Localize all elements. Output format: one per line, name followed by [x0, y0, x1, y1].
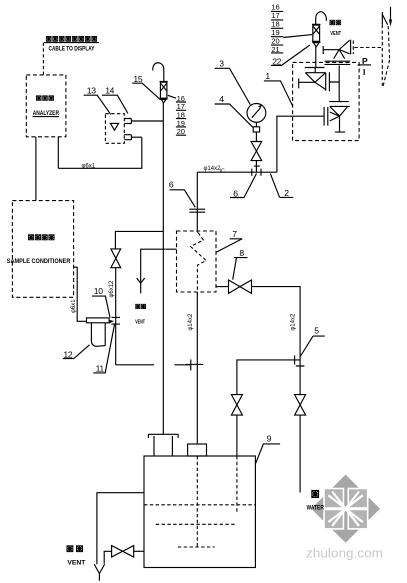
svg-text:SAMPLE CONDITIONER: SAMPLE CONDITIONER: [7, 259, 71, 265]
svg-text:1: 1: [265, 71, 270, 81]
label: fangkong Chinese (vent): [330, 20, 341, 25]
svg-text:9: 9: [267, 433, 272, 443]
cooler coil zigzag (dashed): [191, 233, 207, 292]
leader from 16 to filter F1: [168, 95, 176, 98]
vent hook above filter F2: [316, 12, 327, 25]
valve V10 (vertical bowtie on bypass): [111, 249, 121, 268]
wire: analyzer right stem: [57, 137, 59, 169]
tank nozzle with flange (sample inlet): [148, 434, 178, 456]
leader from stack to filter F2: [283, 35, 312, 38]
port stub upper on box 13: [124, 119, 131, 124]
svg-text:15: 15: [133, 74, 142, 84]
label column 16-21: [271, 3, 279, 54]
wire: bypass valve down to union: [115, 268, 117, 365]
main sample line (vertical): [162, 103, 164, 434]
svg-text:14: 14: [105, 85, 114, 95]
union 5 on water riser: [295, 356, 305, 367]
valve VD (drain bowtie): [112, 546, 134, 557]
wire: filter stem down to valve handle: [315, 47, 317, 68]
wire: water branch to tank: [237, 360, 300, 395]
wire: tank overflow to floor drain: [97, 493, 144, 565]
floor drain funnel: [94, 564, 104, 581]
wire: analyzer left stem to sample conditioner: [35, 137, 37, 201]
wire: cooler drain line with Y vent: [141, 249, 177, 283]
wire: port2 to return line: [131, 136, 141, 138]
wire: valve 8 to water riser: [252, 287, 301, 395]
dashed lower level line: [156, 523, 237, 525]
svg-text:VENT: VENT: [135, 319, 145, 325]
wire: riser from IC header to instrument box: [277, 116, 324, 172]
flow arrow in duct: [390, 7, 392, 21]
valve V1 (regulator in box 1, top-left): [299, 68, 326, 91]
svg-text:ANALYZER: ANALYZER: [33, 110, 60, 117]
filter F2 (vent filter): [312, 24, 321, 47]
dashed liquid level: [144, 504, 255, 506]
flange bars at box 1 top: [325, 61, 351, 64]
svg-text:φ6x12: φ6x12: [109, 280, 115, 298]
valve V8 (horizontal bowtie): [229, 280, 252, 293]
union under gauge: [255, 122, 257, 126]
analyzer U-A: dashed box: [26, 75, 66, 137]
svg-text:11: 11: [96, 364, 105, 374]
svg-text:φ6x1: φ6x1: [82, 163, 96, 169]
svg-text:12: 12: [63, 349, 72, 359]
sample conditioner: dashed box: [12, 201, 73, 298]
wire: phi6x1 return line: [58, 137, 142, 168]
svg-text:13: 13: [87, 85, 96, 95]
union bars right of V1: [329, 72, 339, 91]
wire: drain valve to funnel: [104, 551, 111, 564]
label: water Chinese: [312, 490, 319, 497]
svg-text:5: 5: [314, 326, 319, 336]
svg-text:φ6x1: φ6x1: [71, 299, 77, 313]
Y open vent symbol: [137, 278, 145, 294]
wire: funnel-side line down and across (crossover gap at main line): [116, 364, 191, 366]
svg-text:7: 7: [232, 229, 237, 239]
flue duct wall (crescent): [382, 12, 389, 86]
svg-text:22: 22: [272, 56, 281, 66]
svg-text:I: I: [363, 67, 365, 77]
union coupling at cooler outlet line: [185, 360, 203, 371]
label: paifang Chinese (discharge): [67, 546, 83, 552]
label: sample conditioner Chinese: [28, 235, 54, 240]
port stub lower on box 13: [124, 135, 131, 140]
svg-text:8: 8: [239, 248, 244, 258]
wire: water supply from below: [299, 415, 301, 492]
wire: internal riser: [338, 66, 340, 102]
svg-text:2: 2: [284, 188, 289, 198]
svg-text:φ14x2: φ14x2: [204, 166, 222, 172]
watermark: zhulong logo diamond: [311, 475, 380, 543]
wire: cooler water outlet: [216, 286, 229, 288]
svg-text:VENT: VENT: [67, 561, 85, 567]
svg-text:10: 10: [94, 286, 103, 296]
valve V4 (gauge isolation, vertical bowtie): [251, 142, 262, 161]
nabla symbol inside box 13: [110, 123, 118, 130]
union ticks at gauge junction: [252, 169, 261, 176]
filter F1 on main sample line: [160, 81, 168, 103]
svg-text:IC: IC: [220, 168, 225, 174]
wire: cooler outlet to tank nozzle: [196, 292, 198, 444]
svg-text:4: 4: [219, 94, 224, 104]
svg-text:φ14x2: φ14x2: [290, 313, 296, 331]
wire: port1 to main line: [131, 120, 163, 122]
pressure gauge PG: [247, 104, 266, 123]
label: paiye Chinese: [136, 304, 146, 308]
wire: line from IC header into cooler: [196, 172, 198, 232]
svg-text:6: 6: [233, 188, 238, 198]
svg-text:6: 6: [169, 180, 174, 190]
svg-text:VENT: VENT: [330, 31, 341, 37]
valve W2 (water supply): [295, 395, 306, 416]
union 6 on cooler inlet: [189, 209, 205, 212]
union coupling at funnel mouth: [112, 317, 121, 324]
svg-text:φ14x2: φ14x2: [188, 313, 194, 331]
leader line under cable text: [44, 42, 99, 44]
cooler box 7: dashed box: [177, 231, 217, 292]
agitator paddle dashed: [178, 546, 215, 548]
label column 16-20: [177, 94, 185, 136]
valve V2 (bottom of box 1): [324, 102, 350, 133]
wire: bypass branch from main line: [115, 231, 163, 249]
instrument box 1: dashed box: [293, 62, 360, 140]
wire: tank bottom drain: [134, 550, 144, 552]
valve W1 (tank water inlet): [231, 395, 242, 416]
svg-text:CABLE TO DISPLAY: CABLE TO DISPLAY: [49, 47, 95, 53]
sample catch funnel (item 12): [87, 318, 110, 323]
valve V3 (top, to flue): [323, 40, 353, 59]
wire: valve to IC header with tick: [254, 161, 260, 173]
svg-text:WATER: WATER: [307, 505, 325, 511]
wire: IC header horizontal line: [197, 171, 277, 173]
wire: to tank top: [236, 415, 238, 456]
vent hook above filter F1: [153, 63, 164, 82]
agitator shaft dashed: [196, 456, 198, 547]
label: analyzer Chinese: [36, 96, 53, 101]
tank nozzle 2 (cooler outlet): [188, 444, 207, 456]
svg-text:zhulong.com: zhulong.com: [306, 546, 383, 561]
wire: dashed cable drop to analyzer: [42, 43, 44, 75]
wire: SC drain to funnel: [74, 267, 87, 321]
label: cable-to-display Chinese text: [46, 36, 96, 41]
dashed dip tube (water): [236, 456, 238, 514]
signal line (dashed) to flue duct: [354, 47, 382, 49]
sample valve box 13: dashed box: [105, 114, 124, 144]
tank 9: [144, 456, 255, 568]
svg-text:3: 3: [219, 58, 224, 68]
